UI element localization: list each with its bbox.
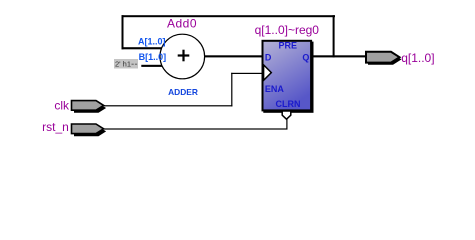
- svg-text:ENA: ENA: [265, 84, 285, 94]
- svg-text:Q: Q: [302, 52, 309, 62]
- svg-text:2' h1: 2' h1: [115, 60, 131, 69]
- svg-text:PRE: PRE: [278, 40, 297, 50]
- svg-text:q[1..0]~reg0: q[1..0]~reg0: [255, 23, 320, 37]
- svg-text:B[1..0]: B[1..0]: [139, 52, 167, 62]
- svg-text:CLRN: CLRN: [276, 99, 301, 109]
- svg-text:ADDER: ADDER: [168, 87, 198, 97]
- svg-text:Add0: Add0: [167, 17, 197, 31]
- svg-text:q[1..0]: q[1..0]: [401, 51, 434, 65]
- svg-text:A[1..0]: A[1..0]: [138, 37, 166, 47]
- svg-text:clk: clk: [54, 98, 70, 112]
- svg-text:D: D: [265, 52, 272, 62]
- svg-text:rst_n: rst_n: [42, 120, 69, 134]
